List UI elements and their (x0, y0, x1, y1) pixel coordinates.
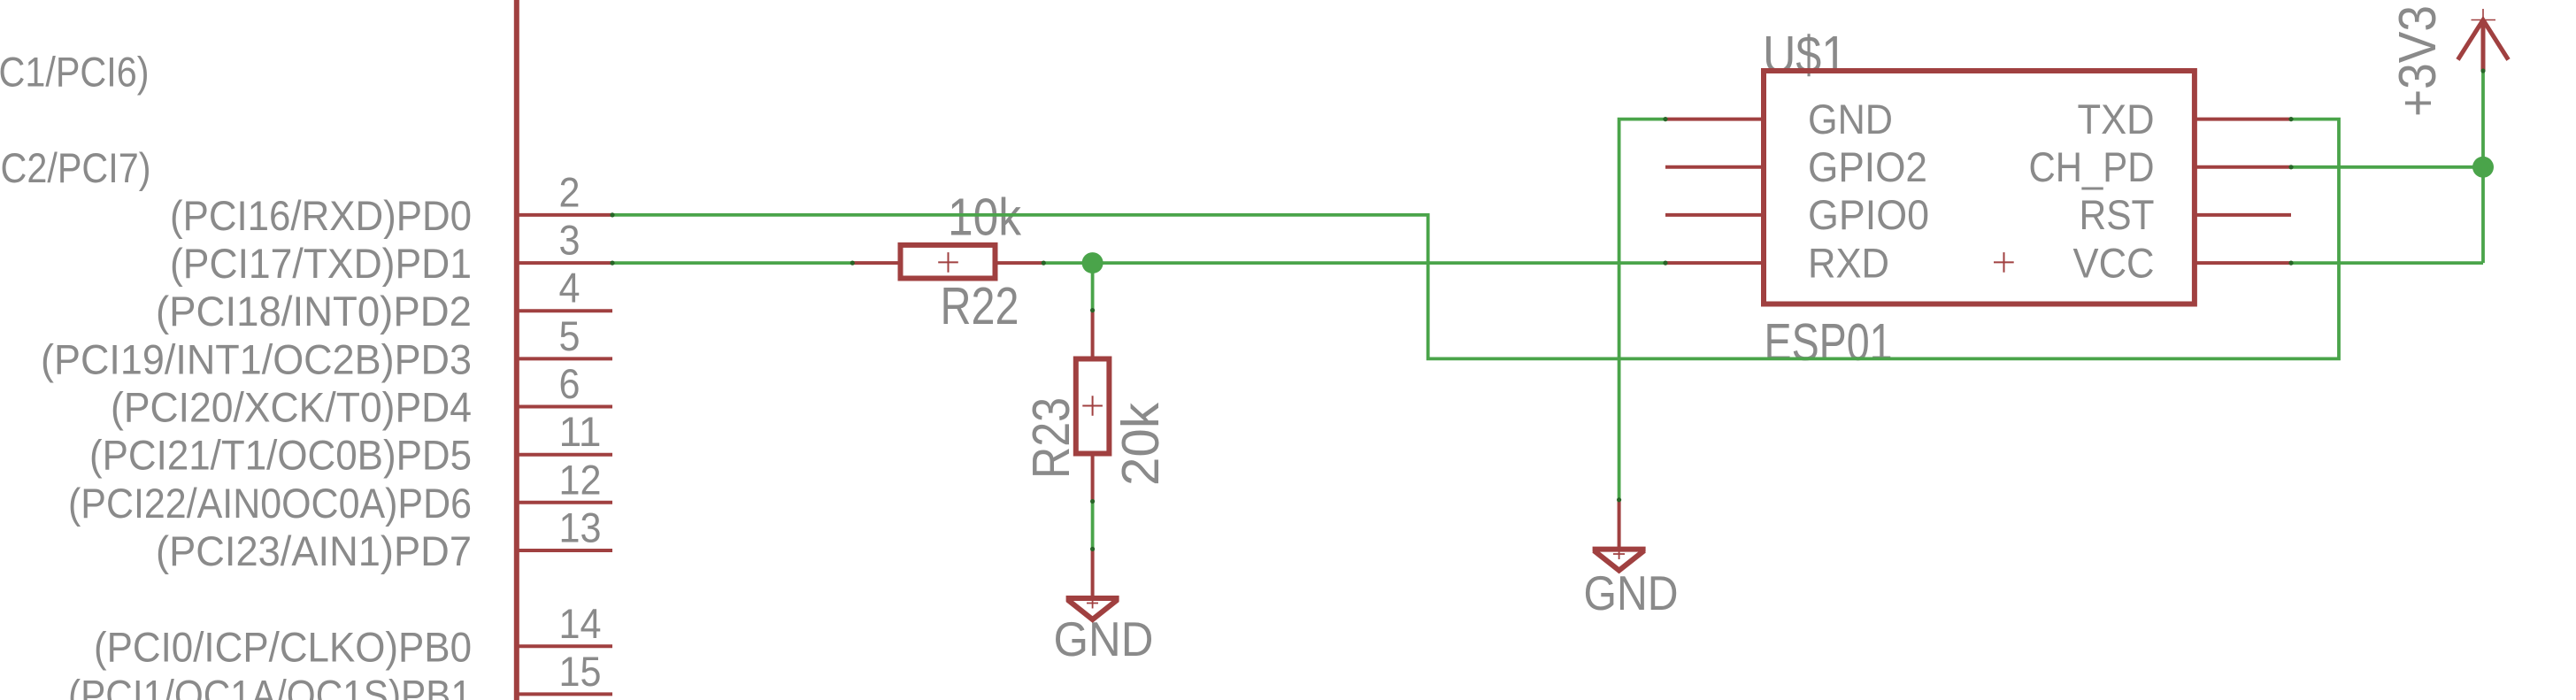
svg-text:15: 15 (559, 648, 602, 695)
junction dot +3V3 node (2472, 157, 2494, 178)
ESP01 origin cross (1994, 252, 2014, 273)
svg-text:13: 13 (559, 504, 602, 551)
MCU pin stubs (516, 215, 612, 695)
ESP pin TXD stub (2195, 118, 2291, 121)
IC U1 (MCU) right edge (514, 0, 519, 700)
ESP pin CH_PD stub (2195, 165, 2291, 169)
MCU pin names (inside symbol, right aligned) (0, 49, 472, 700)
ESP pin GPIO2 stub (1665, 165, 1764, 169)
ground GND2 (below ESP01) (1593, 500, 1646, 571)
ESP pin RST stub (2195, 213, 2291, 217)
svg-text:TXD: TXD (2078, 96, 2155, 142)
module U$1 ESP01 box (1764, 71, 2195, 304)
ESP pin GND stub (1665, 118, 1764, 121)
resistor R23 (1076, 311, 1110, 502)
svg-text:(PCI21/T1/OC0B)PD5: (PCI21/T1/OC0B)PD5 (89, 432, 472, 479)
wire VCC (2291, 261, 2483, 265)
svg-text:2: 2 (559, 168, 581, 215)
wire +3V3 vertical (2481, 71, 2485, 263)
pin 15 PB1 (516, 692, 612, 696)
svg-text:GND: GND (1808, 96, 1893, 142)
wire CH_PD to +3V3 (2291, 165, 2483, 169)
pin 13 PD7 (516, 549, 612, 552)
svg-text:5: 5 (559, 312, 581, 359)
pin 5 PD3 (516, 357, 612, 360)
svg-text:(PCI18/INT0)PD2: (PCI18/INT0)PD2 (156, 288, 472, 335)
svg-text:CH_PD: CH_PD (2029, 143, 2155, 190)
svg-text:6: 6 (559, 360, 581, 407)
wire R23 bottom to GND1 (1091, 502, 1095, 550)
svg-text:U$1: U$1 (1763, 26, 1847, 84)
ESP pin GPIO0 stub (1665, 213, 1764, 217)
svg-text:R22: R22 (941, 277, 1019, 335)
svg-text:+3V3: +3V3 (2388, 5, 2447, 117)
pin endpoint dots (610, 68, 2485, 551)
svg-text:3: 3 (559, 217, 581, 264)
svg-text:(PCI16/RXD)PD0: (PCI16/RXD)PD0 (170, 192, 472, 239)
svg-text:C1/PCI6): C1/PCI6) (0, 49, 150, 96)
pin 14 PB0 (516, 644, 612, 648)
junction dot PD1/R23 node (1082, 252, 1103, 273)
power +3V3 symbol (2458, 9, 2509, 71)
ground GND1 (below R23) (1066, 549, 1119, 619)
pin 3 PD1 (516, 261, 612, 265)
svg-text:GND: GND (1054, 612, 1154, 666)
svg-text:R23: R23 (1022, 397, 1080, 479)
svg-text:(PCI20/XCK/T0)PD4: (PCI20/XCK/T0)PD4 (111, 384, 472, 431)
svg-text:VCC: VCC (2073, 239, 2155, 286)
wire R22 to ESP RXD (1043, 261, 1665, 265)
pin 11 PD5 (516, 453, 612, 457)
svg-text:(PCI22/AIN0OC0A)PD6: (PCI22/AIN0OC0A)PD6 (68, 480, 472, 527)
svg-text:GPIO2: GPIO2 (1808, 143, 1927, 190)
ESP pin names (1808, 96, 1929, 287)
pin 6 PD4 (516, 405, 612, 409)
svg-text:11: 11 (559, 408, 602, 455)
svg-text:(PCI0/ICP/CLKO)PB0: (PCI0/ICP/CLKO)PB0 (94, 623, 472, 670)
svg-text:(PCI17/TXD)PD1: (PCI17/TXD)PD1 (170, 240, 472, 287)
svg-text:GPIO0: GPIO0 (1808, 191, 1929, 238)
MCU pin numbers (559, 168, 602, 695)
svg-text:4: 4 (559, 265, 581, 312)
svg-text:ESP01: ESP01 (1765, 313, 1893, 372)
ESP pin VCC stub (2195, 261, 2291, 265)
pin 2 PD0 (516, 213, 612, 217)
wire ESP GND to GND2 (1619, 119, 1665, 500)
resistor R22 (852, 245, 1043, 279)
pin 4 PD2 (516, 309, 612, 312)
svg-text:12: 12 (559, 456, 602, 503)
svg-text:(PCI19/INT1/OC2B)PD3: (PCI19/INT1/OC2B)PD3 (41, 335, 472, 382)
svg-text:RST: RST (2080, 191, 2155, 238)
svg-text:GND: GND (1584, 565, 1679, 620)
ESP pin RXD stub (1665, 261, 1764, 265)
svg-text:20k: 20k (1111, 403, 1170, 486)
svg-text:(PCI23/AIN1)PD7: (PCI23/AIN1)PD7 (156, 527, 472, 574)
svg-text:14: 14 (559, 600, 602, 647)
svg-text:10k: 10k (948, 188, 1021, 247)
wire PD1 to R22 (612, 261, 852, 265)
wire net PD0 to TXD (612, 119, 2339, 359)
pin 12 PD6 (516, 501, 612, 504)
svg-text:(PCI1/OC1A/OC1S)PB1: (PCI1/OC1A/OC1S)PB1 (68, 671, 472, 700)
svg-text:C2/PCI7): C2/PCI7) (1, 144, 151, 191)
svg-text:RXD: RXD (1808, 239, 1889, 286)
wire junction to R23 top (1091, 263, 1095, 311)
